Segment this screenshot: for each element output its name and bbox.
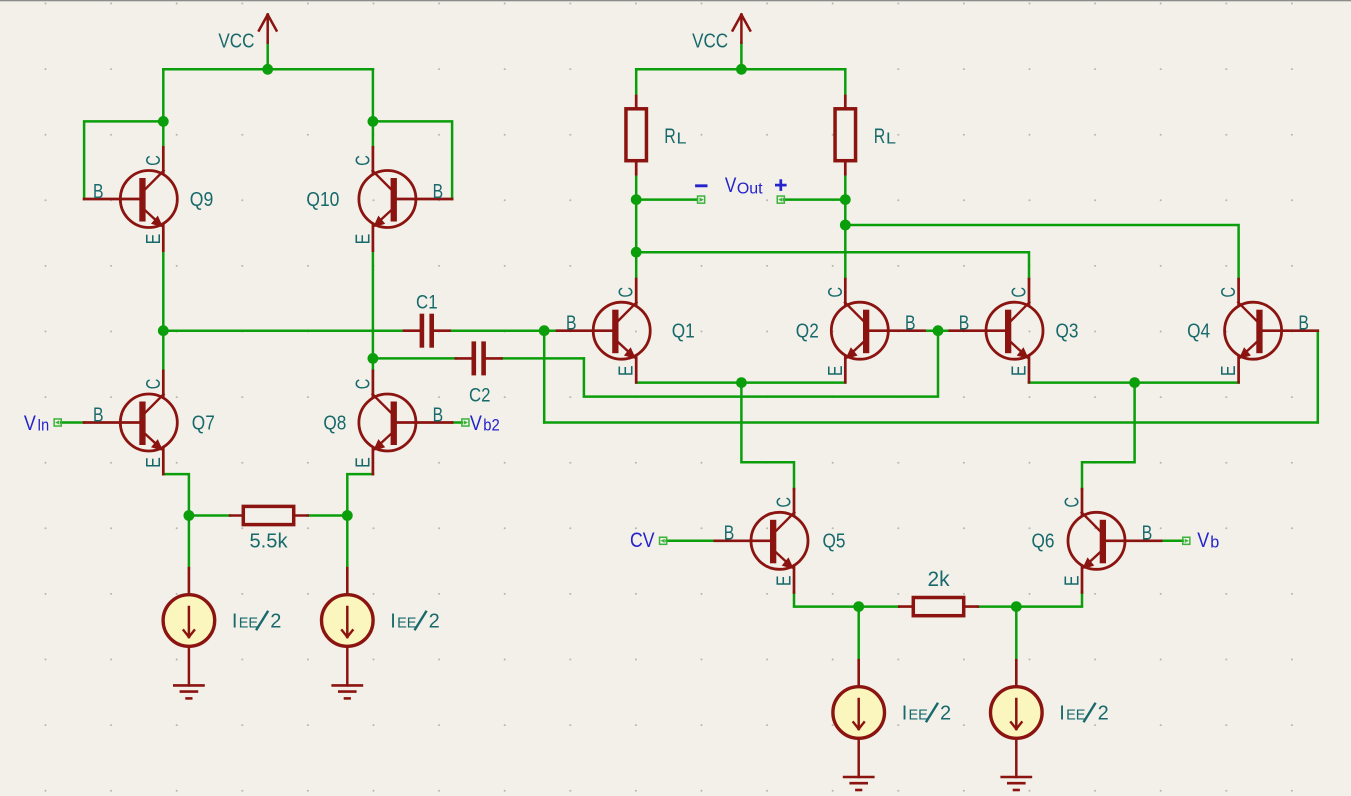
- svg-text:C1: C1: [416, 292, 438, 314]
- svg-text:I: I: [390, 610, 396, 632]
- svg-text:E: E: [143, 457, 165, 468]
- svg-text:B: B: [93, 404, 104, 426]
- svg-text:V: V: [725, 174, 737, 197]
- junction at (372.9,358.4): [368, 353, 379, 364]
- resistor R 2k: [913, 598, 963, 616]
- svg-text:C: C: [352, 155, 374, 166]
- ground: [174, 648, 203, 699]
- CS4 pin stubs: [1015, 660, 1018, 687]
- wire collector tie Q2-Q4: [845, 225, 1238, 279]
- svg-text:Q7: Q7: [192, 412, 215, 434]
- junction at (544.2,330.7): [539, 325, 550, 336]
- CS3 pin stubs: [857, 660, 860, 687]
- svg-text:I: I: [902, 702, 908, 724]
- ground: [844, 740, 873, 790]
- svg-text:R: R: [874, 125, 886, 148]
- wire Q6 base to Vb: [1161, 540, 1183, 543]
- svg-text:Q8: Q8: [323, 412, 346, 434]
- junction at (741.4,69.3): [736, 64, 747, 75]
- svg-text:L: L: [677, 130, 687, 147]
- svg-text:EE: EE: [1066, 707, 1086, 723]
- svg-text:E: E: [1218, 365, 1240, 376]
- svg-text:C: C: [1009, 287, 1031, 298]
- transistor Q5: [715, 489, 808, 592]
- transistor Q2: [825, 279, 925, 382]
- svg-text:EE: EE: [397, 615, 417, 631]
- 2k pin stubs: [899, 605, 978, 608]
- svg-text:B: B: [905, 313, 916, 335]
- label VOut: [695, 174, 787, 198]
- wire Q9 emitter to node: [162, 251, 165, 331]
- ground: [1002, 740, 1031, 790]
- wire Q5 emitter route: [794, 592, 859, 606]
- wire to 2k left: [859, 605, 900, 608]
- junction at (372.9,121.4): [368, 116, 379, 127]
- svg-text:C: C: [616, 287, 638, 298]
- svg-text:C2: C2: [469, 385, 491, 407]
- svg-text:2: 2: [1098, 702, 1109, 724]
- current source I1: [163, 595, 215, 647]
- transistor Q1: [557, 279, 650, 382]
- transistor Q7: [84, 371, 177, 474]
- svg-text:Q10: Q10: [306, 189, 339, 211]
- svg-text:E: E: [1009, 365, 1031, 376]
- power VCC symbol: [733, 15, 751, 43]
- junction at (845.3,199.6): [840, 194, 851, 205]
- wire C2 left: [373, 357, 456, 360]
- CS2 pin stubs: [346, 568, 349, 595]
- wire Q10 emitter to Q8 collector: [372, 251, 375, 371]
- svg-text:I: I: [232, 610, 238, 632]
- svg-text:EE: EE: [239, 615, 259, 631]
- svg-text:C: C: [1218, 287, 1240, 298]
- pin marker VOut minus: [698, 196, 705, 203]
- junction at (938,330.7): [933, 325, 944, 336]
- junction at (845.3,225): [840, 220, 851, 231]
- wire node down to Q7 collector: [162, 331, 165, 371]
- svg-text:E: E: [352, 234, 374, 245]
- wire VIn to Q7 base: [61, 421, 84, 424]
- svg-text:2: 2: [429, 610, 440, 632]
- wire emitter row Q1 Q2: [636, 381, 845, 384]
- junction at (636.2,199.6): [631, 194, 642, 205]
- wire C2 right: [502, 357, 584, 360]
- svg-text:E: E: [774, 576, 796, 587]
- wire to 2k right: [978, 605, 1017, 608]
- svg-text:Q6: Q6: [1032, 531, 1055, 553]
- junction at (636.2,252.2): [631, 247, 642, 258]
- svg-text:B: B: [93, 181, 104, 203]
- wire VCC2 stub: [740, 43, 743, 70]
- svg-text:Q9: Q9: [190, 189, 214, 211]
- junction at (267.7,69.3): [262, 64, 273, 75]
- transistor Q10: [352, 147, 452, 250]
- CS1 pin stubs: [188, 568, 191, 595]
- junction at (347.3,515.5): [342, 510, 353, 521]
- junction at (1134.6,382.6): [1129, 377, 1140, 388]
- label IEE/2 (I4): [1059, 702, 1108, 724]
- power VCC symbol: [259, 15, 277, 43]
- svg-text:C: C: [143, 155, 165, 166]
- wire Q10 collector drop: [372, 69, 375, 147]
- svg-text:B: B: [433, 181, 444, 203]
- transistor Q4: [1218, 279, 1318, 382]
- wire RL1 top stub: [635, 69, 638, 96]
- pin marker Vb: [1183, 537, 1190, 544]
- svg-text:R: R: [664, 125, 676, 148]
- pin marker CV: [660, 537, 667, 544]
- svg-text:5.5k: 5.5k: [250, 530, 289, 552]
- svg-text:C: C: [1062, 497, 1084, 508]
- svg-text:B: B: [959, 313, 970, 335]
- wire RL2 top stub: [844, 69, 847, 96]
- wire C1 to Q1 base: [450, 329, 557, 332]
- svg-text:V: V: [24, 412, 36, 435]
- wire CS1 drop: [188, 516, 191, 569]
- wire CS3 drop: [857, 607, 860, 661]
- wire base node to C2: [584, 331, 938, 397]
- svg-text:VCC: VCC: [218, 29, 254, 52]
- pin marker VOut plus: [777, 196, 784, 203]
- svg-text:I: I: [1059, 702, 1065, 724]
- wire CS2 drop: [346, 516, 349, 569]
- wire Q2-Q3 base link: [925, 329, 950, 332]
- capacitor C1: [404, 314, 450, 348]
- svg-text:V: V: [1197, 529, 1209, 552]
- wire emitters to Q5 collector: [741, 383, 794, 490]
- wire collector tie Q1-Q3: [636, 252, 1029, 279]
- wire emitters to Q6 collector: [1082, 383, 1135, 490]
- resistor RL1: [626, 109, 647, 161]
- wire Q10 base loop: [373, 121, 452, 199]
- wire base tie vertical left: [543, 331, 546, 423]
- transistor Q6: [1062, 489, 1162, 592]
- resistor RL2: [835, 109, 856, 161]
- junction at (163.3,121.4): [158, 116, 169, 127]
- svg-text:B: B: [1142, 523, 1153, 545]
- svg-text:Q2: Q2: [796, 321, 819, 343]
- transistor Q3: [950, 279, 1043, 382]
- wire to 5.5k right: [308, 514, 348, 517]
- wire emitter row Q3 Q4: [1029, 381, 1239, 384]
- RL2 pin stubs: [844, 96, 847, 174]
- wire Q6 emitter route: [1016, 592, 1082, 606]
- junction at (188.9,515.5): [184, 510, 195, 521]
- junction at (741.4,382.6): [736, 377, 747, 388]
- wire base tie vertical right: [1317, 331, 1320, 423]
- wire left top rail: [163, 68, 373, 71]
- svg-text:B: B: [566, 313, 577, 335]
- svg-text:B: B: [433, 404, 444, 426]
- svg-text:E: E: [825, 365, 847, 376]
- junction at (1016.3,606.6): [1011, 601, 1022, 612]
- wire base tie long horizontal: [544, 421, 1318, 424]
- current source I3: [833, 687, 885, 739]
- svg-text:Q1: Q1: [672, 321, 695, 343]
- pin marker VIn: [54, 419, 61, 426]
- wire Q9 collector drop: [162, 69, 165, 147]
- wire VOut plus: [784, 198, 845, 201]
- svg-text:E: E: [616, 365, 638, 376]
- svg-text:C: C: [825, 287, 847, 298]
- svg-text:E: E: [1062, 576, 1084, 587]
- wire right top rail: [636, 68, 845, 71]
- svg-text:b2: b2: [483, 417, 500, 435]
- wire Q9 base loop: [84, 121, 163, 199]
- svg-text:E: E: [143, 234, 165, 245]
- wire CV to Q5 base: [667, 540, 715, 543]
- wire left node to C1: [163, 329, 404, 332]
- svg-text:2: 2: [940, 702, 951, 724]
- svg-text:VCC: VCC: [692, 29, 728, 52]
- svg-text:C: C: [143, 379, 165, 390]
- wire RL2 bottom to Q2 collector: [844, 174, 847, 279]
- transistor Q8: [352, 371, 452, 474]
- wire CS4 drop: [1015, 607, 1018, 661]
- svg-text:CV: CV: [630, 529, 655, 552]
- label IEE/2 (I1): [232, 610, 281, 632]
- 5.5k pin stubs: [230, 514, 308, 517]
- ground: [333, 648, 362, 699]
- svg-text:2k: 2k: [928, 568, 950, 591]
- svg-text:B: B: [1298, 313, 1309, 335]
- current source I2: [322, 595, 374, 647]
- resistor R 5.5k: [243, 506, 293, 524]
- wire VOut minus: [636, 198, 697, 201]
- svg-text:V: V: [470, 412, 482, 435]
- svg-text:E: E: [352, 457, 374, 468]
- wire Q7 emitter route: [163, 474, 189, 515]
- current source I4: [991, 687, 1043, 739]
- svg-text:Q4: Q4: [1187, 321, 1210, 343]
- wire Q8 emitter route: [347, 474, 373, 515]
- svg-text:B: B: [724, 523, 735, 545]
- svg-text:Q5: Q5: [823, 531, 846, 553]
- pin marker Vb2: [462, 419, 469, 426]
- wire Q8 base to Vb2: [452, 421, 462, 424]
- svg-text:L: L: [886, 130, 896, 147]
- svg-text:Out: Out: [737, 180, 763, 197]
- wire RL1 bottom to Q1 collector: [635, 174, 638, 279]
- junction at (163.3,330.7): [158, 325, 169, 336]
- transistor Q9: [84, 147, 177, 250]
- svg-text:EE: EE: [909, 707, 929, 723]
- svg-text:b: b: [1210, 534, 1219, 552]
- svg-text:Q3: Q3: [1056, 321, 1079, 343]
- svg-text:C: C: [774, 497, 796, 508]
- wire to 5.5k left: [189, 514, 230, 517]
- label IEE/2 (I3): [902, 702, 951, 724]
- svg-text:C: C: [352, 379, 374, 390]
- svg-text:2: 2: [270, 610, 281, 632]
- wire VCC1 stub: [266, 43, 269, 70]
- RL1 pin stubs: [635, 96, 638, 174]
- svg-text:In: In: [37, 417, 49, 435]
- junction at (858.7,606.6): [853, 601, 864, 612]
- capacitor C2: [456, 341, 502, 375]
- label IEE/2 (I2): [390, 610, 439, 632]
